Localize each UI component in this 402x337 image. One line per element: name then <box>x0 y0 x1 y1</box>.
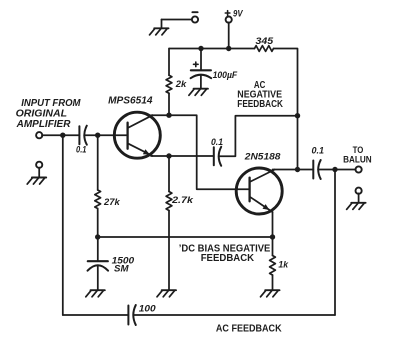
ground (below 2.7k) <box>157 290 176 297</box>
svg-text:FEEDBACK: FEEDBACK <box>201 253 255 264</box>
node (Q1 base / 27k junction) <box>95 133 100 138</box>
wire (Q1 collector to node) <box>151 114 169 116</box>
label AC NEGATIVE FEEDBACK <box>237 80 283 110</box>
capacitor 1500 SM (silver mica bypass) <box>88 256 135 290</box>
node (bias bus / 27k junction) <box>95 234 100 239</box>
node (Q1 collector) <box>166 113 171 118</box>
wire (bottom AC feedback line, right of cap) <box>133 314 335 316</box>
transistor Q1 MPS6514 <box>114 112 160 158</box>
svg-text:27k: 27k <box>103 197 120 208</box>
svg-text:100µF: 100µF <box>213 70 238 81</box>
ground (input ground terminal) <box>27 178 46 185</box>
capacitor 100uF (electrolytic bypass) <box>191 49 238 89</box>
wire (node to Q1 base) <box>98 134 127 136</box>
wire (0.1 cap up to AC feedback line) <box>219 116 298 157</box>
wire (Q1 emitter to node) <box>151 155 169 157</box>
resistor 2.7k <box>166 192 194 211</box>
svg-text:SM: SM <box>114 264 130 275</box>
capacitor 0.1 (AC feedback to Q1 emitter) <box>211 137 223 166</box>
svg-text:0.1: 0.1 <box>312 146 325 156</box>
wire (top supply bus) <box>169 48 254 50</box>
node (supply bus / 9V junction) <box>226 46 231 51</box>
capacitor 0.1 (input coupling) <box>76 126 87 155</box>
node (output / AC feedback junction) <box>332 167 337 172</box>
wire (output cap to balun terminal) <box>318 169 356 171</box>
wire (2k to Q1 collector node) <box>168 93 170 115</box>
wire (Q1 emitter to 0.1 feedback cap) <box>169 155 214 157</box>
svg-text:0.1: 0.1 <box>211 137 223 147</box>
wire (input cap to base node) <box>84 134 97 136</box>
svg-text:2k: 2k <box>175 79 187 90</box>
svg-text:AC FEEDBACK: AC FEEDBACK <box>216 324 282 335</box>
wire (node to input cap) <box>63 134 80 136</box>
wire (Q2 emitter down to bias bus) <box>272 212 274 237</box>
node (bias bus / Q2 emitter junction) <box>270 234 275 239</box>
ground (below 1500 cap) <box>86 290 105 297</box>
wire (base node down to 27k) <box>97 135 99 190</box>
transistor Q2 2N5188 <box>236 168 282 214</box>
node (input / AC feedback junction) <box>60 133 65 138</box>
label AC FEEDBACK <box>216 324 282 335</box>
svg-text:345: 345 <box>256 36 275 46</box>
ground (below 1k) <box>261 290 280 297</box>
label DC BIAS NEGATIVE FEEDBACK <box>179 244 271 264</box>
node (Q1 emitter) <box>166 153 171 158</box>
wire (DC bias feedback bus) <box>98 236 273 238</box>
capacitor 0.1 (output coupling) <box>312 146 325 180</box>
terminal (balun ground) <box>356 188 362 203</box>
ground (below 100uF) <box>189 89 208 96</box>
wire (2.7k down to ground, crossing bias bus) <box>168 211 170 291</box>
label MPS6514 <box>108 96 153 107</box>
node (AC feedback tap at Q2 collector line) <box>295 113 300 118</box>
resistor 345 <box>255 36 275 51</box>
wire (bottom AC feedback line, left of cap) <box>63 314 129 316</box>
svg-text:ORIGINAL: ORIGINAL <box>16 108 67 119</box>
wire (bus corner down to 2k) <box>168 49 170 76</box>
wire (output node down the right side) <box>334 170 336 316</box>
terminal (input hot) <box>36 132 42 138</box>
svg-text:1k: 1k <box>278 259 288 270</box>
wire (bias bus down to 1500 cap) <box>97 237 99 261</box>
wire (1k to ground) <box>272 275 274 290</box>
node (Q2 collector / feedback junction) <box>295 167 300 172</box>
node (supply bus / 100uF junction) <box>198 46 203 51</box>
ground (top left chassis ground) <box>150 20 169 35</box>
resistor 1k <box>270 256 289 276</box>
wire (27k to bias bus) <box>97 209 99 238</box>
terminal +9V <box>225 8 243 22</box>
wire (Q1 emitter node down to 2.7k) <box>168 156 170 192</box>
svg-text:2.7k: 2.7k <box>171 195 194 206</box>
resistor 27k <box>95 190 121 209</box>
wire (ground to minus terminal) <box>162 19 193 21</box>
ground (below balun terminal) <box>347 203 366 210</box>
svg-text:TO: TO <box>353 145 364 155</box>
wire (input node down the left side) <box>62 135 64 315</box>
wire (Q1 collector to Q2 base) <box>169 115 250 189</box>
wire (9V terminal down to supply bus) <box>228 22 230 48</box>
svg-text:AMPLIFIER: AMPLIFIER <box>16 119 71 130</box>
svg-text:100: 100 <box>139 304 157 315</box>
capacitor 100 (AC feedback) <box>128 304 156 326</box>
terminal - (negative supply terminal) <box>192 12 198 22</box>
svg-text:9V: 9V <box>233 8 243 19</box>
resistor 2k <box>166 75 187 93</box>
svg-text:2N5188: 2N5188 <box>244 152 281 163</box>
label 2N5188 <box>244 152 281 163</box>
label TO BALUN <box>343 145 372 165</box>
terminal (input ground) <box>36 162 42 178</box>
svg-text:0.1: 0.1 <box>76 144 87 154</box>
wire (Q2 collector to output line) <box>273 169 314 171</box>
svg-text:MPS6514: MPS6514 <box>108 96 153 107</box>
svg-text:BALUN: BALUN <box>343 155 372 165</box>
wire (bias node down to 1k) <box>272 237 274 256</box>
wire (345 to Q2 collector line, right vertical) <box>274 49 298 170</box>
wire (input terminal to node) <box>42 134 63 136</box>
terminal (to balun) <box>356 166 362 172</box>
svg-text:INPUT FROM: INPUT FROM <box>21 98 81 109</box>
svg-text:FEEDBACK: FEEDBACK <box>237 99 283 110</box>
label INPUT FROM ORIGINAL AMPLIFIER <box>16 98 82 130</box>
